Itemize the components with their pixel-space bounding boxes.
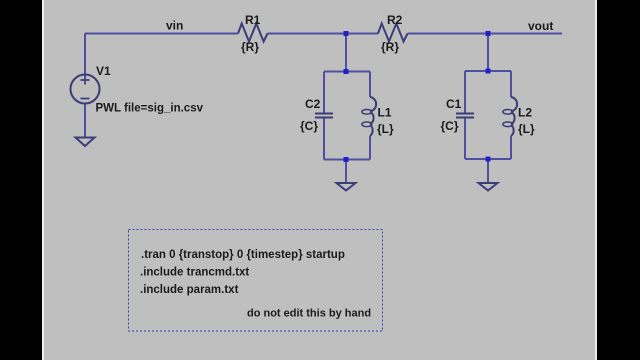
wire right tank inductor branch — [510, 71, 512, 97]
svg-text:{L}: {L} — [518, 122, 535, 136]
wire left tank ground stub — [345, 160, 347, 184]
node junction vin/tank1 top — [344, 31, 349, 36]
svg-text:.include trancmd.txt: .include trancmd.txt — [140, 267, 249, 279]
wire right tank cap branch — [464, 71, 466, 113]
svg-text:{C}: {C} — [441, 119, 459, 133]
directive box dashed border — [129, 230, 383, 332]
inductor L2 — [511, 97, 517, 136]
svg-text:C1: C1 — [446, 97, 462, 111]
voltage source V1 — [71, 75, 100, 104]
ground left tank — [337, 183, 356, 191]
node junction vout/tank2 top — [486, 31, 491, 36]
wire left tank inductor branch — [369, 72, 371, 98]
svg-text:{L}: {L} — [377, 122, 394, 136]
svg-text:vout: vout — [528, 19, 553, 33]
wire rail R2 to vout — [408, 33, 563, 35]
ground right tank — [479, 183, 498, 191]
svg-text:L1: L1 — [378, 106, 392, 120]
svg-text:vin: vin — [166, 19, 183, 33]
svg-text:{C}: {C} — [300, 119, 318, 133]
ground V1 — [76, 138, 95, 147]
node junction tank1 bottom rail — [344, 157, 349, 162]
inductor L1 — [370, 97, 376, 136]
wire vin rail left segment — [85, 33, 238, 35]
wire right tank bottom rail — [465, 158, 511, 160]
svg-text:R2: R2 — [387, 13, 403, 27]
node junction tank1 top rail — [344, 69, 349, 74]
wire left tank bottom rail — [324, 159, 370, 161]
wire left tank cap branch — [323, 72, 325, 113]
capacitor C1 — [456, 114, 474, 118]
svg-text:{R}: {R} — [381, 40, 399, 54]
svg-text:L2: L2 — [518, 106, 532, 120]
svg-text:{R}: {R} — [241, 40, 259, 54]
wire node vin-tank stub — [345, 34, 347, 72]
resistor R1 — [238, 24, 268, 42]
svg-text:.tran 0 {transtop} 0 {timestep: .tran 0 {transtop} 0 {timestep} startup — [141, 249, 345, 261]
wire V1 bottom stub — [84, 104, 86, 138]
capacitor C2 — [315, 114, 333, 118]
wire node vout-tank stub — [487, 34, 489, 72]
wire right tank ground stub — [487, 159, 489, 183]
svg-text:PWL file=sig_in.csv: PWL file=sig_in.csv — [96, 103, 204, 115]
svg-text:do not edit this by hand: do not edit this by hand — [247, 308, 371, 320]
svg-text:C2: C2 — [305, 97, 321, 111]
node junction tank2 top rail — [486, 69, 491, 74]
svg-text:V1: V1 — [96, 64, 111, 78]
resistor R2 — [378, 24, 408, 42]
wire V1 top stub — [84, 34, 86, 75]
wire left tank top rail — [324, 71, 370, 73]
svg-text:.include param.txt: .include param.txt — [140, 284, 239, 296]
node junction tank2 bottom rail — [486, 157, 491, 162]
svg-text:R1: R1 — [245, 13, 261, 27]
wire right tank top rail — [465, 70, 511, 72]
wire rail between R1 and R2 — [268, 33, 379, 35]
